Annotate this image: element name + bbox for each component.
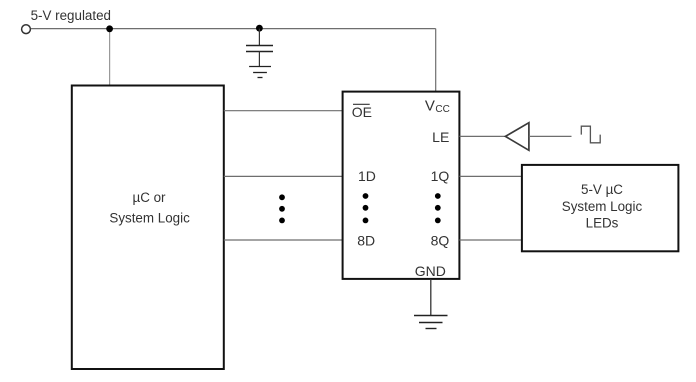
ground (capacitor) (249, 67, 271, 78)
wire top supply rail (31, 28, 436, 30)
wire 8Q (459, 239, 522, 241)
svg-text:8Q: 8Q (431, 233, 450, 249)
svg-text:System Logic: System Logic (562, 199, 643, 214)
wire capacitor to ground (258, 52, 260, 67)
svg-text:LEDs: LEDs (586, 215, 619, 230)
wire 1Q (459, 175, 522, 177)
IC U1 (latch) body (343, 92, 460, 279)
svg-text:5-V regulated: 5-V regulated (31, 8, 111, 23)
wire junction to left block (109, 29, 111, 86)
buffer driver (triangle) on LE (505, 123, 529, 151)
svg-text:OE: OE (352, 104, 372, 120)
wire VCC drop (435, 29, 437, 92)
svg-text:8D: 8D (357, 233, 375, 249)
junction node B (256, 25, 263, 32)
wire buffer input (529, 135, 572, 137)
input terminal (open circle) (22, 25, 31, 34)
wire junction B to capacitor (258, 29, 260, 45)
wire 1D (224, 175, 343, 177)
svg-text:LE: LE (432, 129, 449, 145)
svg-text:System Logic: System Logic (109, 211, 190, 226)
junction node A (106, 25, 113, 32)
pulse waveform symbol (581, 126, 600, 143)
ground (IC GND) (414, 316, 448, 329)
block: 5-V uC System Logic LEDs (522, 165, 679, 251)
wire LE (459, 135, 505, 137)
svg-text:GND: GND (415, 263, 446, 279)
svg-text:CC: CC (435, 104, 449, 115)
svg-text:µC or: µC or (132, 190, 166, 205)
svg-text:1Q: 1Q (431, 168, 450, 184)
svg-text:5-V µC: 5-V µC (581, 182, 623, 197)
svg-text:1D: 1D (358, 168, 376, 184)
svg-text:V: V (425, 97, 435, 114)
capacitor C1 (bypass) (246, 46, 273, 52)
wire 8D (224, 239, 343, 241)
ellipsis dots (inside IC, Q side) (435, 193, 441, 223)
ellipsis dots (bus continuation, between blocks) (279, 194, 285, 223)
ellipsis dots (inside IC, D side) (363, 193, 369, 223)
block: uC or System Logic (72, 86, 224, 370)
wire GND drop (430, 279, 432, 316)
wire OE (224, 110, 343, 112)
